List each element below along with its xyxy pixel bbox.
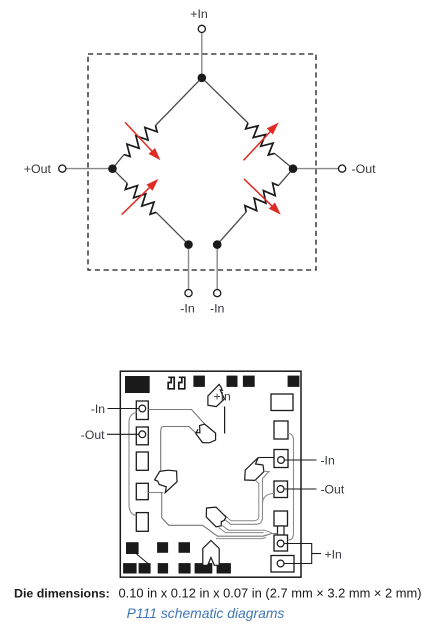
svg-text:-In: -In xyxy=(180,302,195,316)
wire resistor R4 to bottom node 2 xyxy=(217,212,246,245)
right pad 3 circle xyxy=(278,457,285,464)
terminal circle +Out xyxy=(59,165,66,172)
left pad 1 circle xyxy=(139,405,146,412)
right wide pad (top) xyxy=(271,394,293,411)
svg-text:-In: -In xyxy=(210,302,225,316)
red variability arrow over R3 (pointing NE) xyxy=(244,123,279,161)
flag resistor bottom-centre xyxy=(206,507,226,527)
trace: right flag to right pad3 xyxy=(258,457,274,459)
callout line right -In xyxy=(284,459,317,461)
bottom-left black pad (upper row A) xyxy=(126,542,139,554)
node: top junction xyxy=(198,74,207,83)
+In marker pentagon (top centre) xyxy=(208,384,225,406)
svg-text:+In: +In xyxy=(214,389,231,403)
alignment mark "2" left xyxy=(168,377,174,389)
trace: left flag down and across bottom (to right stub) xyxy=(162,493,278,536)
right pad 4 circle xyxy=(277,486,284,493)
bottom black square lower row c xyxy=(158,563,168,573)
wire +In terminal to top node xyxy=(201,32,203,77)
svg-text:P111 schematic diagrams: P111 schematic diagrams xyxy=(127,605,285,621)
wire +Out terminal to left node xyxy=(66,168,113,170)
svg-text:Die dimensions: 0.10 in x 0.12: Die dimensions: 0.10 in x 0.12 in x 0.07… xyxy=(14,586,422,601)
svg-text:+In: +In xyxy=(190,7,208,21)
svg-text:-Out: -Out xyxy=(352,162,377,176)
node: bottom junction 2 xyxy=(213,240,222,249)
trace: band I lower companion xyxy=(219,528,264,533)
red variability arrow over R4 (pointing SE) xyxy=(244,179,281,215)
top-left black bond pad xyxy=(125,376,150,393)
bottom black square upper row B xyxy=(157,542,168,553)
right pad 7 (+In lower, large) xyxy=(271,556,294,573)
bottom black square upper row C xyxy=(179,542,191,553)
bottom black square lower row a xyxy=(123,563,137,573)
terminal circle +In xyxy=(198,25,205,32)
trace: -Out pad curve joining U-band xyxy=(263,494,275,504)
node: right junction xyxy=(289,164,298,173)
node: left junction xyxy=(108,164,117,173)
top black square 3 xyxy=(227,376,238,387)
resistor R3 zigzag (upper-right, +In to -Out) xyxy=(246,123,275,155)
right pad 6 circle xyxy=(277,540,284,547)
flag resistor left-middle xyxy=(155,470,177,492)
trace: band II lower companion line xyxy=(216,538,266,539)
node: bottom junction 1 xyxy=(184,240,193,249)
wire resistor R3 to right node xyxy=(275,153,294,168)
+In bracket bottom line xyxy=(284,563,312,565)
svg-text:+Out: +Out xyxy=(24,162,52,176)
trace: U-band outer from right flag notch to bottom flag xyxy=(224,472,270,525)
trace: left pad4 to left flag tip xyxy=(148,492,163,494)
svg-text:-In: -In xyxy=(321,454,335,468)
+In bracket vertical xyxy=(311,543,313,564)
bottom black square lower row b xyxy=(139,563,151,573)
top black square 5 (right corner) xyxy=(288,376,300,387)
svg-text:-Out: -Out xyxy=(321,482,345,496)
left pad 2 circle xyxy=(139,431,146,438)
terminal circle -Out xyxy=(339,165,346,172)
flag resistor right-middle xyxy=(245,458,264,481)
svg-text:+In: +In xyxy=(325,548,342,562)
trace: band I from bottom flag to stub xyxy=(222,525,272,533)
left pad 1 (-In) xyxy=(136,401,148,420)
red variability arrow over R2 (pointing NE) xyxy=(122,179,159,215)
bottom black square lower row f xyxy=(217,563,231,573)
resistor R4 zigzag (lower-right, -Out to -In) xyxy=(245,183,279,212)
left pad 4 xyxy=(136,483,148,499)
inter-pad connector rect xyxy=(278,526,285,535)
diagonal link between bottom-left pads xyxy=(137,554,149,564)
right pad 2 xyxy=(274,421,288,439)
trace: upper-left branch to left flag top xyxy=(161,427,196,471)
wire top node to resistor R3 (upper-right arm) xyxy=(202,78,248,123)
bottom black square lower row d xyxy=(179,563,191,573)
left pad 5 xyxy=(136,513,148,532)
die outline xyxy=(120,371,301,577)
left pad 3 xyxy=(136,452,148,470)
trace: left loop pad1 down to left pad5 xyxy=(129,412,137,516)
svg-text:-In: -In xyxy=(91,402,105,416)
resistor R1 zigzag (upper-left, +Out to +In) xyxy=(124,126,157,157)
terminal circle -In 1 xyxy=(185,290,192,297)
svg-text:-Out: -Out xyxy=(81,428,105,442)
right pad 5 xyxy=(274,511,288,526)
wire bottom node 2 to -In terminal 2 xyxy=(216,245,218,290)
callout line right -Out xyxy=(284,488,317,490)
right pad 4 (-Out) xyxy=(274,481,288,498)
top black square 2 xyxy=(193,376,205,387)
right pad 6 (+In upper) xyxy=(274,535,288,551)
left pad 2 (-Out) xyxy=(136,427,148,445)
terminal circle -In 2 xyxy=(214,290,221,297)
resistor R2 zigzag (lower-left, +Out to -In) xyxy=(125,183,156,214)
wire bottom node 1 to -In terminal 1 xyxy=(188,245,190,290)
alignment mark "2" right xyxy=(179,377,185,389)
top black square 4 xyxy=(243,376,255,387)
trace: left pad1 to top flag xyxy=(148,410,204,424)
red variability arrow over R1 (pointing SE) xyxy=(125,122,160,160)
callout line left -In xyxy=(108,408,140,410)
wire resistor R1 to left node xyxy=(113,155,125,169)
wire right node to -Out terminal xyxy=(293,168,339,170)
wire resistor R2 to bottom node 1 xyxy=(156,212,188,244)
callout line left -Out xyxy=(107,433,140,435)
bottom-centre marker pentagon xyxy=(203,541,219,566)
trace: right pad2 down right side into +In pad xyxy=(288,434,294,541)
pointer line below die +In label xyxy=(224,407,226,434)
wire left node to resistor R2 (lower-left arm) xyxy=(113,169,128,184)
trace: U-band inner line xyxy=(225,480,259,521)
right pad 7 circle xyxy=(277,560,284,567)
wire top node to resistor R1 (upper-left arm) xyxy=(156,78,202,126)
flag resistor top-centre xyxy=(196,424,216,443)
dashed die boundary box xyxy=(88,54,316,270)
bottom black square lower row e xyxy=(195,563,213,573)
+In bracket top line xyxy=(284,543,312,545)
wire right node to resistor R4 (lower-right arm) xyxy=(279,169,294,186)
right pad 3 (-In) xyxy=(274,450,288,468)
+In bracket stub xyxy=(312,553,321,555)
